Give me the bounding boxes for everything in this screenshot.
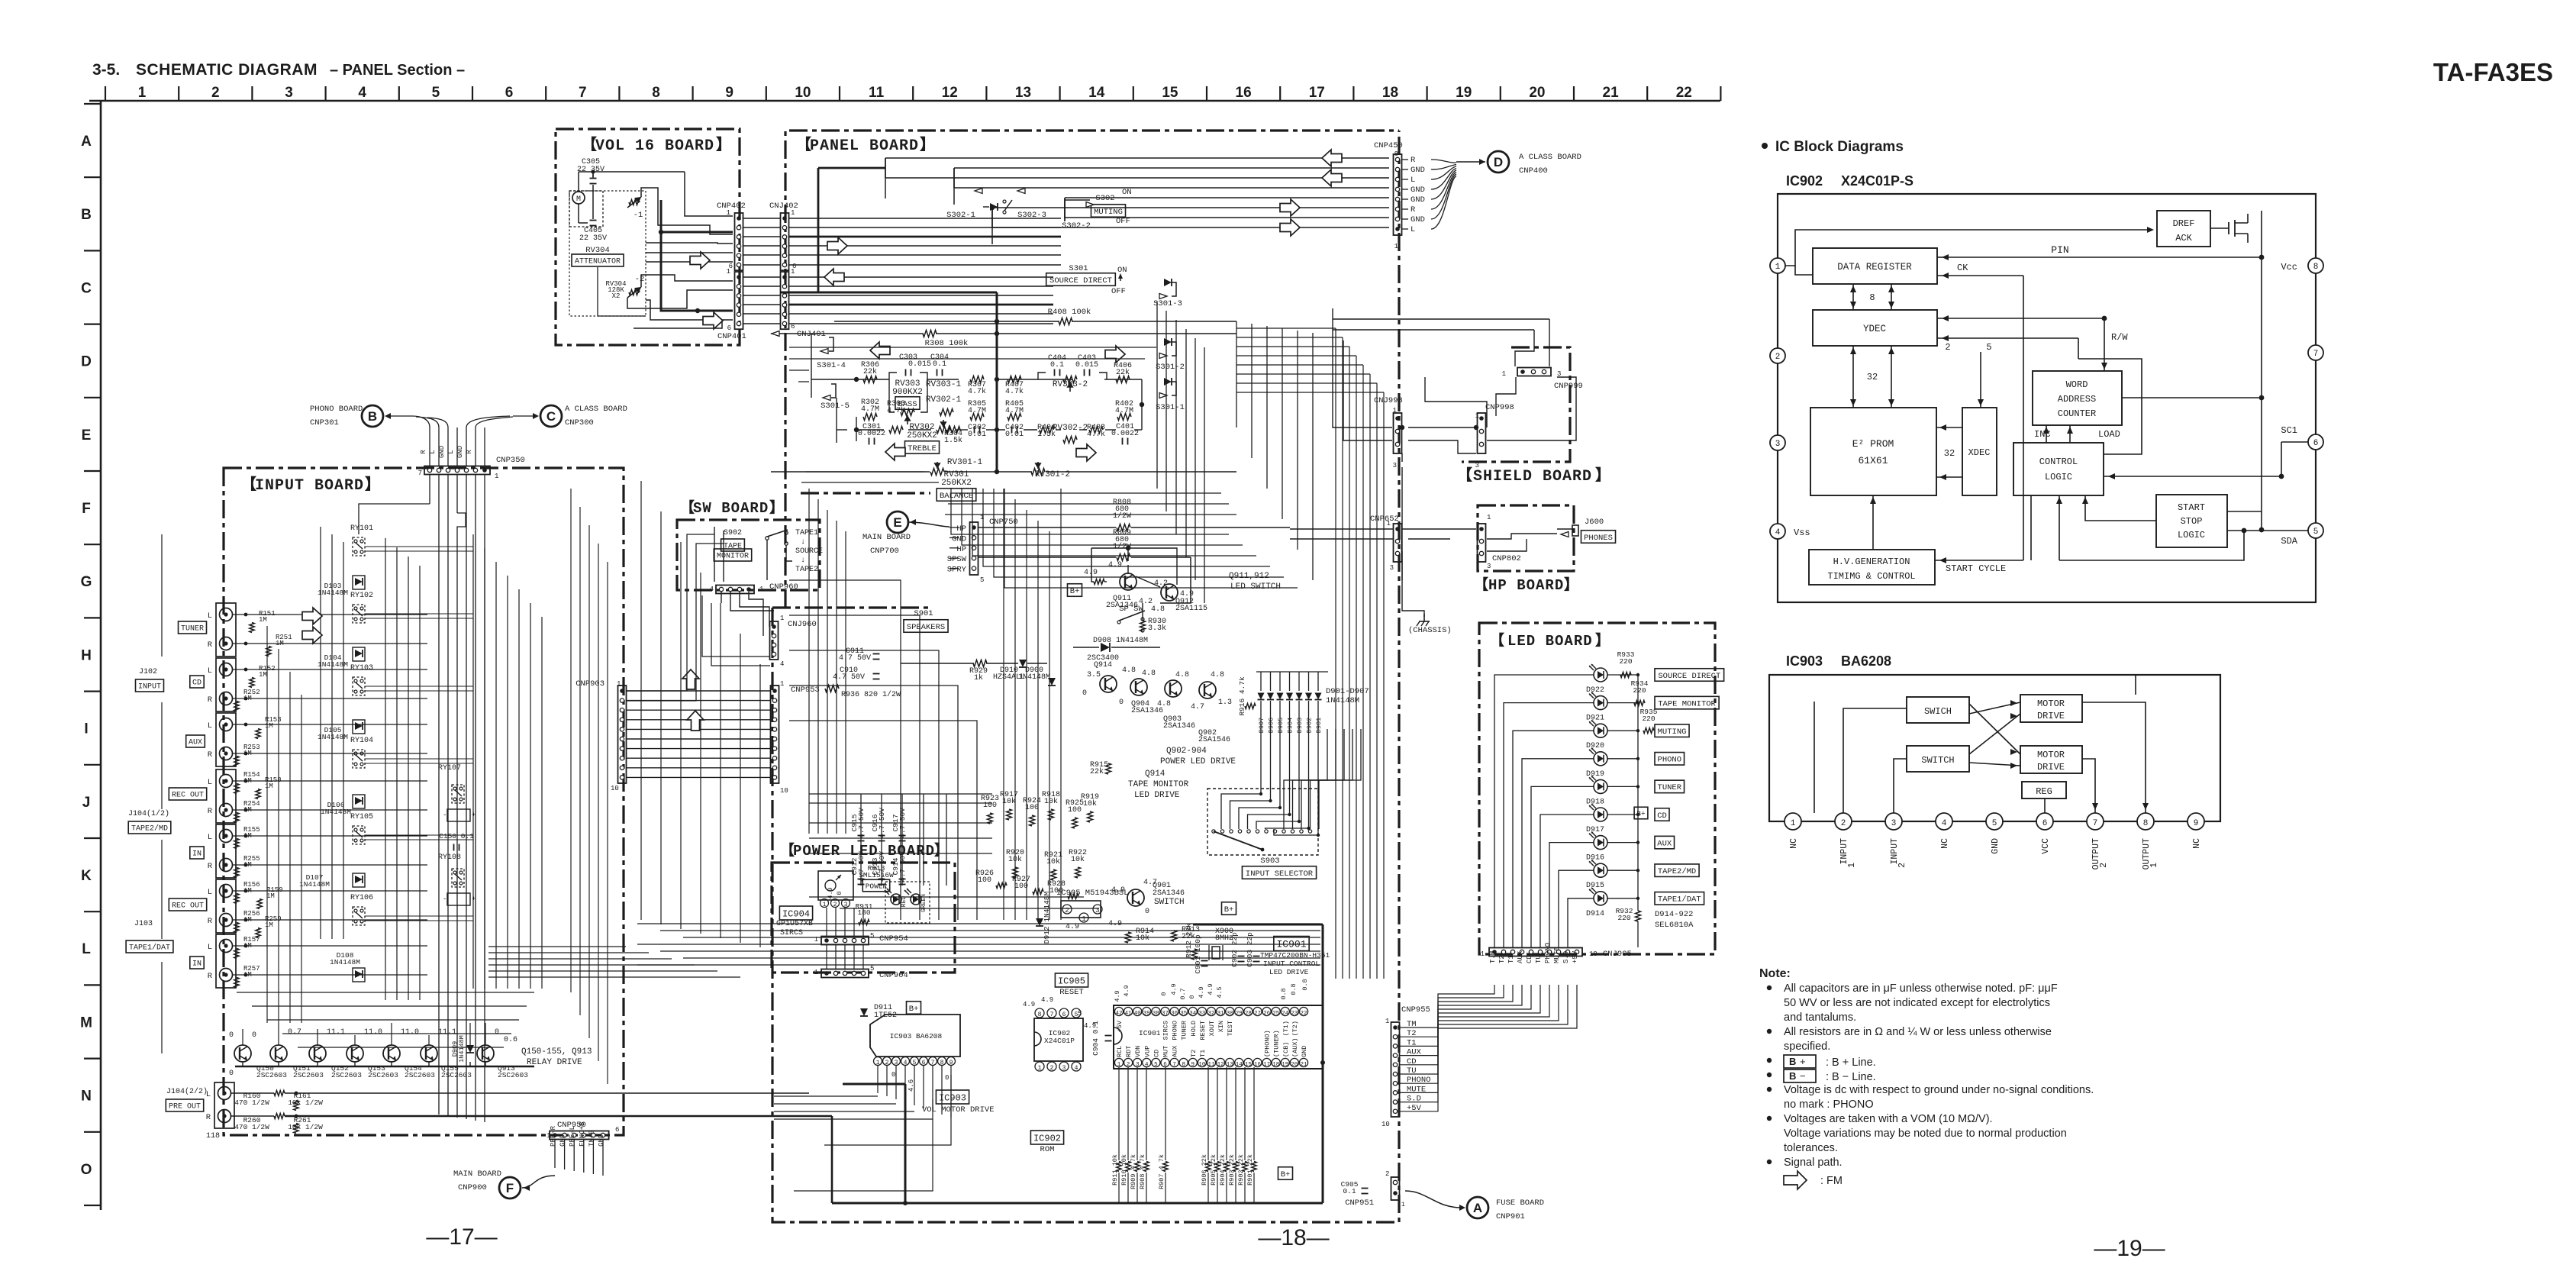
svg-text:1: 1 [1487,514,1491,521]
svg-text:0: 0 [1188,995,1196,998]
svg-text:220: 220 [1633,686,1646,695]
RC cluster resistors row2 [975,849,1087,899]
ic IC902 X24C01P body [1034,1018,1083,1061]
svg-text:HOLD: HOLD [1190,1021,1198,1036]
column ruler [89,85,1720,101]
svg-text:0.015: 0.015 [1075,361,1098,369]
svg-text:SCHEMATIC DIAGRAM: SCHEMATIC DIAGRAM [136,61,318,79]
diode D909 1N4148M [451,1035,474,1063]
svg-text:CNP951: CNP951 [1345,1199,1374,1208]
svg-text:E: E [893,515,901,530]
svg-text:IC905: IC905 [1058,976,1085,986]
power leds red green [885,882,930,923]
svg-text:YDEC: YDEC [1863,324,1886,334]
label RELAY DRIVE [521,1047,592,1067]
svg-text:10: 10 [611,785,619,792]
block DATA REGISTER [1813,248,1937,284]
svg-text:↓: ↓ [801,538,805,547]
label 8 [1869,292,1875,303]
svg-text:K: K [81,868,92,884]
treble bottom row [858,423,1139,453]
resistor R307 4.7k [968,376,986,397]
reference circle B PHONO BOARD CNP301 [310,405,383,427]
svg-text:1/2W: 1/2W [1113,511,1131,521]
svg-text:I: I [84,721,88,737]
svg-text:L: L [1411,176,1415,185]
svg-text:TA-FA3ES: TA-FA3ES [2433,58,2553,86]
svg-text:LED DRIVE: LED DRIVE [1269,968,1309,976]
connector CNP401 [717,268,746,341]
svg-text:WORD: WORD [2066,379,2088,390]
board outline PANEL BOARD [772,131,1399,1222]
svg-text:2SC3400: 2SC3400 [1087,654,1119,663]
svg-text:D918: D918 [1586,798,1604,806]
bass filter C303 [899,353,931,376]
svg-text:D901-D907: D901-D907 [1326,687,1369,696]
svg-text:11.1: 11.1 [327,1028,345,1037]
svg-text:4: 4 [358,85,366,101]
svg-text:R: R [206,1113,211,1122]
svg-text:2: 2 [1775,353,1781,362]
svg-text:14: 14 [1236,1062,1243,1068]
IC902 block outer box [1778,194,2316,602]
heading IC902 X24C01P-S [1786,173,1913,189]
svg-text:220: 220 [1619,657,1632,666]
svg-text:TAPE2/MD: TAPE2/MD [131,824,168,834]
connector CNP450 [1374,141,1403,250]
svg-text:D922: D922 [1586,686,1604,695]
svg-text:0.8: 0.8 [1301,979,1309,990]
svg-text:FUSE BOARD: FUSE BOARD [1496,1199,1544,1208]
svg-text:no mark : PHONO: no mark : PHONO [1784,1098,1874,1111]
svg-text:0.01: 0.01 [1005,431,1024,439]
label D901-D907 1N4148M [1326,687,1369,705]
svg-text:8: 8 [1038,1011,1042,1018]
svg-text:COUNTER: COUNTER [2058,408,2096,419]
rca jack group TAPE1 REC OUT [169,879,236,933]
svg-text:LOGIC: LOGIC [2178,530,2205,540]
svg-text:GND: GND [1411,195,1425,205]
svg-text:1: 1 [1847,863,1857,868]
svg-text:CNP402: CNP402 [717,202,746,211]
svg-text:1: 1 [876,1060,880,1066]
rca jack group TAPE1 IN [190,934,236,988]
svg-text:20: 20 [1529,85,1545,101]
svg-text:M: M [80,1015,92,1031]
svg-text:19: 19 [1456,85,1472,101]
svg-text:L: L [208,888,212,897]
IC902 pin 6 SC1 [2281,425,2323,450]
ic901 thick bus [832,924,1325,1205]
svg-text:TM+B: TM+B [588,1130,595,1147]
svg-text:9: 9 [725,85,733,101]
svg-text:tolerances.: tolerances. [1784,1142,1838,1154]
svg-text:START: START [2178,502,2205,513]
IC902 pin 3 [1770,435,1785,450]
svg-text:2SC2603: 2SC2603 [293,1071,324,1079]
svg-text:1M: 1M [259,616,267,624]
switch S302-1 [946,189,998,221]
RC cluster resistors row1 [981,791,1099,828]
svg-text:7: 7 [931,1060,935,1066]
svg-text:GND: GND [1991,838,2001,854]
svg-text:5: 5 [980,576,984,584]
svg-text:J102: J102 [139,668,157,676]
svg-text:D914: D914 [1586,910,1604,918]
rca jack group TAPE2 REC OUT [169,769,236,823]
svg-text:CNP999: CNP999 [1554,382,1583,391]
svg-text:0.6: 0.6 [504,1036,517,1044]
svg-text:PRE-L: PRE-L [569,1126,576,1147]
svg-text:42: 42 [1115,1011,1122,1017]
svg-text:CNP953: CNP953 [791,686,820,695]
svg-text:Q902-904: Q902-904 [1166,747,1207,756]
note bullet lines [1767,982,2094,1169]
svg-text:STOP: STOP [2181,516,2203,527]
svg-text:0.7: 0.7 [288,1028,301,1037]
svg-text:0: 0 [495,1028,499,1037]
svg-text:100: 100 [978,876,991,885]
svg-text:PHONO: PHONO [1544,943,1552,963]
svg-text:TU: TU [1535,955,1543,963]
svg-text:: B − Line.: : B − Line. [1826,1071,1876,1083]
svg-text:4: 4 [710,586,714,593]
resistor R306 22k [861,361,879,383]
svg-text:1.5k: 1.5k [944,436,962,445]
switch S301-3 [1153,279,1182,308]
svg-text:2: 2 [1065,907,1069,915]
svg-text:9: 9 [949,1060,953,1066]
svg-text:1N4148M: 1N4148M [321,808,351,816]
board outline POWER LED BOARD [772,841,955,973]
svg-text:S301-5: S301-5 [821,402,850,411]
svg-text:TMP47C200BN-H351: TMP47C200BN-H351 [1260,951,1330,960]
note heading [1759,967,1791,980]
selector fan wires [1221,714,1361,837]
CNJ905 pin labels [1489,943,1579,963]
svg-text:HP: HP [956,545,966,554]
svg-text:A: A [81,134,92,150]
wire bus CNP401 to panel [703,269,1053,329]
svg-text:4.9: 4.9 [1041,996,1053,1004]
svg-text:61X61: 61X61 [1858,455,1888,466]
svg-text:39: 39 [1143,1011,1150,1017]
svg-text:19: 19 [1282,1062,1288,1068]
svg-text:D921: D921 [1586,715,1604,723]
svg-text:AUX: AUX [189,739,202,747]
svg-text:6: 6 [505,85,514,101]
tone cluster wires [771,292,1236,474]
svg-text:4: 4 [1942,819,1947,828]
svg-text:7: 7 [2093,819,2098,828]
svg-text:9: 9 [1191,1062,1195,1068]
svg-text:S301-4: S301-4 [817,361,846,370]
phones jack J600 [1557,518,1616,543]
svg-text:1M: 1M [265,921,273,929]
mosfet symbol [2210,214,2248,243]
svg-text:GREEN: GREEN [920,894,927,912]
svg-text:5: 5 [870,965,874,973]
connector CNJ905 [1481,948,1632,960]
svg-text:R909 4.7k: R909 4.7k [1130,1154,1137,1189]
svg-text:GND: GND [559,1134,567,1147]
svg-text:8: 8 [2313,263,2319,272]
svg-text:S301-3: S301-3 [1153,299,1182,308]
svg-text:4.8: 4.8 [1175,671,1189,679]
svg-text:3.5: 3.5 [1087,671,1101,679]
svg-text:-2: -2 [635,275,645,284]
svg-text:GND: GND [1301,1046,1308,1057]
svg-text:TAPE1/DAT: TAPE1/DAT [1658,895,1701,905]
svg-text:F: F [82,501,91,517]
diode D105 1N4148M [318,720,365,741]
svg-text:38: 38 [1153,1011,1159,1017]
page title [92,61,465,79]
svg-text:4.8: 4.8 [1157,700,1171,708]
svg-text:J103: J103 [134,920,153,928]
svg-text:1: 1 [791,268,795,276]
svg-text:D915: D915 [1586,882,1604,890]
svg-text:TUNER: TUNER [1658,783,1682,792]
svg-text:4: 4 [1775,528,1781,537]
wire bundle input board long verticals [267,489,608,1084]
board outline SHIELD BOARD [1457,347,1610,486]
svg-text:LOGIC: LOGIC [2045,472,2072,482]
svg-text:HP BOARD: HP BOARD [1488,577,1564,594]
pre out wires [206,1092,832,1203]
svg-text:22k: 22k [1090,767,1104,776]
svg-text:CNP400: CNP400 [1519,166,1548,176]
svg-text:5: 5 [432,85,440,101]
svg-text:CNP401: CNP401 [717,332,746,341]
svg-text:25: 25 [1272,1011,1280,1017]
ic IC901 body [1114,1005,1323,1069]
svg-text:H.V.GENERATION: H.V.GENERATION [1833,557,1910,567]
IC902 pin 2 [1770,348,1785,363]
note B- line [1784,1069,1876,1083]
IC902 wires [1785,206,2308,563]
svg-text:7: 7 [1172,1062,1176,1068]
svg-text:MAIN BOARD: MAIN BOARD [862,533,911,542]
svg-text:MONITOR: MONITOR [717,553,749,561]
switch S902 TAPE MONITOR [714,529,751,561]
treble row resistors [861,395,1133,434]
svg-text:1k: 1k [974,673,983,682]
svg-text:1: 1 [1401,1202,1405,1208]
svg-text:D: D [1494,155,1503,169]
svg-text:D919: D919 [1586,770,1604,779]
relay RY107 [438,764,476,821]
svg-text:18: 18 [1382,85,1398,101]
svg-text:11: 11 [869,85,885,101]
svg-text:AUX: AUX [1657,839,1672,848]
svg-text:2: 2 [1841,819,1846,828]
svg-text:1: 1 [727,268,730,276]
svg-text:FUNC+B: FUNC+B [579,1121,586,1147]
svg-text:GND: GND [438,446,446,458]
resistor R809 680 1/2W [978,529,1191,561]
svg-text:(CHASSIS): (CHASSIS) [1408,626,1452,635]
connector CNJ998 [1374,396,1403,469]
svg-text:PIN: PIN [2051,244,2068,256]
svg-text:BA6208: BA6208 [1841,653,1891,669]
transistor Q150 2SC2603 [229,1031,287,1079]
block WORD ADDRESS COUNTER [2033,371,2122,425]
svg-text:(T1): (T1) [1282,1021,1290,1036]
svg-text:2: 2 [833,902,837,908]
svg-text:4.9: 4.9 [1207,983,1214,995]
svg-text:SIRCS: SIRCS [1162,1021,1170,1040]
label 32 xdec [1944,448,1955,459]
svg-text:11.0: 11.0 [364,1028,382,1037]
svg-text:1: 1 [814,936,818,944]
svg-text:N: N [81,1089,92,1105]
board outline SW BOARD [677,498,820,590]
svg-text:3.3k: 3.3k [1148,624,1166,633]
svg-text:VUP: VUP [1143,1046,1151,1057]
svg-text:REG: REG [2036,786,2052,797]
svg-text:4.9: 4.9 [1066,923,1079,931]
svg-text:SEL6810A: SEL6810A [1655,921,1694,930]
svg-text:0.1: 0.1 [933,360,946,369]
svg-text:IC902: IC902 [1033,1133,1061,1144]
svg-text:10k: 10k [1071,855,1085,864]
svg-text:R308 100k: R308 100k [925,339,969,348]
svg-text:TAPE: TAPE [724,543,742,551]
svg-text:MUT: MUT [1162,1046,1170,1057]
svg-text:R: R [208,917,213,926]
svg-text:XOUT: XOUT [1208,1021,1216,1036]
svg-text:4.8: 4.8 [1211,671,1224,679]
svg-text:D906: D906 [1268,718,1275,733]
switch S301-5 [821,384,850,411]
svg-text:11.0: 11.0 [401,1028,419,1037]
svg-text:+5V: +5V [1572,950,1579,963]
svg-text:CNP904: CNP904 [879,971,908,980]
svg-text:6: 6 [2042,819,2048,828]
svg-text:0: 0 [229,1031,234,1040]
svg-text:6: 6 [727,324,731,332]
diode row D901-D907 [1256,672,1328,733]
wire bundle panel right verticals [1236,328,1384,979]
connector CNJ401 [781,268,826,339]
svg-text:100: 100 [1014,882,1028,891]
svg-text:CNP900: CNP900 [458,1183,487,1192]
svg-text:IC905 M51943BSL: IC905 M51943BSL [1056,889,1129,898]
svg-text:-1: -1 [634,211,643,220]
svg-text:J: J [82,795,91,811]
svg-text:5: 5 [870,932,874,940]
svg-text:4.9: 4.9 [827,887,834,898]
svg-text:ACK: ACK [2175,233,2192,244]
svg-text:7: 7 [579,85,587,101]
svg-text:INPUT: INPUT [1839,838,1849,865]
svg-text:H: H [81,647,92,663]
svg-text:1: 1 [1791,819,1796,828]
B+ label panel top [1067,584,1082,597]
svg-text:32: 32 [1867,372,1878,382]
block XDEC [1962,408,1997,495]
svg-text:5: 5 [913,1060,917,1066]
svg-text:40: 40 [1134,1011,1142,1017]
block REG [2022,782,2066,798]
transistor Q155 2SC2603 [421,1028,472,1079]
connector CNP955 [1381,1005,1430,1128]
svg-text:1: 1 [823,902,827,908]
diode D908 1N4148M [1073,637,1160,652]
svg-text:INPUT: INPUT [1890,838,1900,865]
label INC [2034,429,2051,440]
svg-text:HZS4ALL: HZS4ALL [993,673,1025,682]
svg-text:CNJ998: CNJ998 [1374,396,1403,405]
label IC902 ROM [1030,1131,1063,1154]
svg-text:REC OUT: REC OUT [172,792,204,800]
svg-text:13: 13 [1015,85,1031,101]
svg-text:B: B [1789,1056,1796,1067]
wire bundle panel mid horizontals [789,347,1236,515]
resistor R916 4.7k [1238,676,1256,716]
note B+ line [1784,1055,1876,1069]
svg-text:0.0022: 0.0022 [858,430,885,438]
svg-text:4: 4 [904,1060,908,1066]
svg-text:1: 1 [1117,1062,1121,1068]
svg-text:27: 27 [1254,1011,1261,1017]
CNP955 pin labels [1407,1020,1431,1113]
cap C403 [1075,354,1098,376]
transistor Q912 2SA1115 [1151,579,1207,614]
svg-text:IC904: IC904 [782,908,810,919]
svg-text:【: 【 [796,136,811,155]
svg-text:CNJ960: CNJ960 [788,620,817,629]
CNP950 wires down [555,1140,603,1176]
block SWITCH [1907,746,1969,772]
svg-text:M: M [576,195,581,204]
svg-text:1: 1 [2149,863,2159,868]
svg-text:MUTE: MUTE [1553,947,1561,963]
HP board wires [1290,529,1557,580]
power led board wires [827,887,863,969]
svg-text:S302: S302 [1095,194,1114,203]
svg-text:S302-2: S302-2 [1062,221,1091,231]
svg-text:14: 14 [1088,85,1105,101]
resistor R406 22k [1114,362,1132,383]
svg-text:34: 34 [1189,1011,1197,1017]
reference circle E MAIN BOARD CNP700 [862,511,949,556]
svg-text:C904 0.1: C904 0.1 [1091,1021,1100,1056]
svg-text:—19—: —19— [2094,1236,2165,1261]
svg-text:L: L [447,450,455,453]
svg-text:XDEC: XDEC [1968,447,1991,458]
svg-text:SOURCE DIRECT: SOURCE DIRECT [1658,672,1720,681]
svg-text:4.9: 4.9 [1023,1001,1035,1008]
svg-text:VOL MOTOR DRIVE: VOL MOTOR DRIVE [922,1105,995,1115]
svg-text:CD: CD [1657,811,1667,821]
svg-text:3: 3 [1487,563,1491,570]
cap C404 [1048,354,1066,376]
svg-text:TIMIMG & CONTROL: TIMIMG & CONTROL [1827,571,1915,582]
svg-text:220: 220 [1617,914,1630,922]
svg-text:CONTROL: CONTROL [2039,456,2078,467]
label Q914 TAPE MONITOR LED DRIVE [1128,769,1189,800]
resistor array R906-R901 [1201,1067,1256,1203]
relay ladder vertical wires [321,527,542,1000]
ic IC901 pin labels bottom [1116,1030,1308,1057]
svg-text:D903: D903 [1296,718,1304,733]
svg-text:0: 0 [836,891,843,895]
svg-text:32: 32 [1944,448,1955,459]
svg-text:10k 1/2W: 10k 1/2W [288,1123,323,1131]
shield board wires [1333,308,1576,462]
